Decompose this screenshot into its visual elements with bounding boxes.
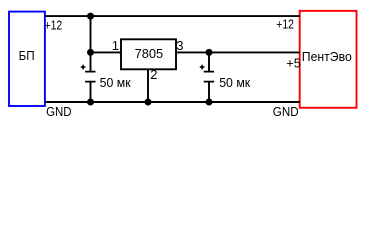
svg-text:+5: +5: [286, 56, 301, 71]
svg-text:GND: GND: [46, 104, 72, 119]
svg-text:+12: +12: [276, 17, 294, 32]
svg-text:3: 3: [176, 38, 183, 53]
svg-text:2: 2: [150, 67, 157, 82]
svg-text:50 мк: 50 мк: [100, 75, 131, 90]
svg-text:50 мк: 50 мк: [219, 75, 250, 90]
svg-text:ПентЭво: ПентЭво: [302, 49, 352, 64]
svg-text:GND: GND: [273, 104, 299, 119]
svg-text:7805: 7805: [135, 46, 164, 61]
svg-text:+12: +12: [45, 18, 63, 33]
svg-text:БП: БП: [19, 48, 35, 63]
svg-text:1: 1: [112, 38, 119, 53]
